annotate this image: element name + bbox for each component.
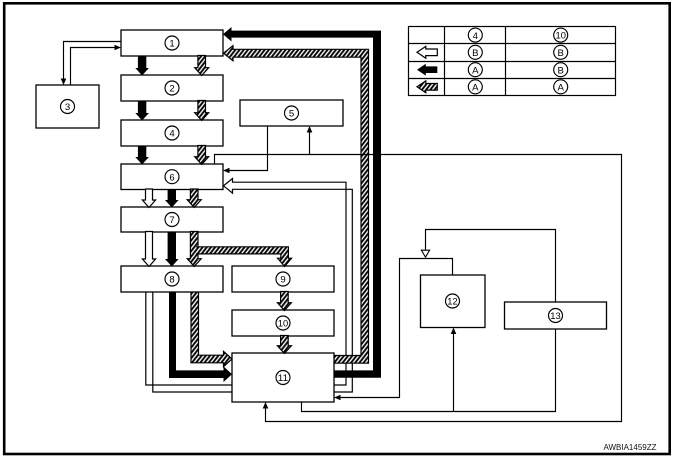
svg-text:B: B	[557, 48, 563, 59]
svg-text:A: A	[557, 83, 564, 94]
svg-text:B: B	[557, 65, 563, 76]
svg-text:1: 1	[169, 39, 174, 50]
svg-text:13: 13	[550, 311, 560, 321]
svg-text:9: 9	[280, 275, 285, 286]
svg-text:3: 3	[65, 102, 70, 113]
svg-text:B: B	[472, 48, 478, 59]
svg-text:6: 6	[169, 172, 174, 183]
svg-text:AWBIA1459ZZ: AWBIA1459ZZ	[603, 443, 656, 452]
svg-text:12: 12	[447, 297, 457, 307]
svg-text:A: A	[472, 83, 479, 94]
svg-text:A: A	[472, 65, 479, 76]
svg-text:2: 2	[169, 84, 174, 95]
svg-text:10: 10	[556, 31, 566, 41]
svg-text:4: 4	[169, 129, 175, 140]
svg-text:5: 5	[289, 109, 294, 120]
svg-text:8: 8	[169, 275, 174, 286]
svg-text:4: 4	[473, 31, 479, 42]
svg-text:10: 10	[278, 319, 288, 329]
svg-text:11: 11	[278, 373, 288, 383]
svg-text:7: 7	[169, 215, 174, 226]
